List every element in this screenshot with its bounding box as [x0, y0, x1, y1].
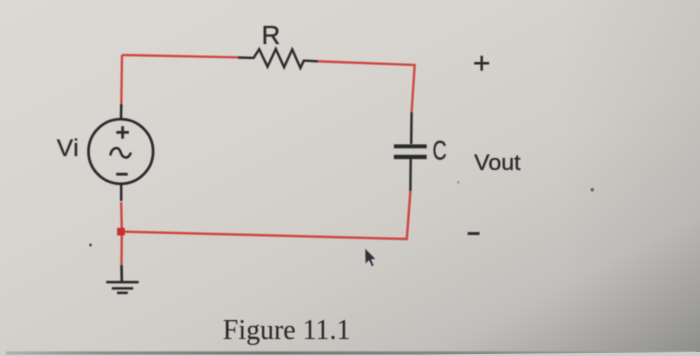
wire black stub below capacitor	[409, 159, 412, 191]
mouse cursor	[365, 248, 377, 268]
dust speck right	[590, 188, 594, 192]
figure caption	[223, 315, 351, 346]
ground symbol	[106, 282, 138, 293]
wire left vertical red	[120, 55, 123, 104]
bottom bezel strip	[6, 351, 696, 354]
svg-text:C: C	[433, 135, 447, 165]
wire black stub into capacitor	[410, 112, 413, 144]
plus sign inside source	[116, 126, 129, 139]
dust speck mid	[457, 181, 460, 184]
resistor R (zigzag)	[238, 49, 318, 68]
dust speck left	[89, 243, 92, 246]
wire red down to junction and ground	[120, 202, 123, 265]
svg-text:Vi: Vi	[57, 135, 80, 162]
voltage source Vi (circle)	[89, 119, 154, 184]
wire bottom right red	[122, 191, 410, 239]
minus sign inside source	[116, 173, 128, 176]
svg-text:Figure 11.1: Figure 11.1	[223, 315, 351, 346]
label + (Vout positive)	[474, 56, 489, 71]
wire black lead into source	[120, 104, 123, 120]
capacitor C: top plate	[394, 144, 427, 148]
wire top left red (node A to resistor)	[122, 55, 238, 57]
wire top right red (resistor to node B)	[318, 61, 415, 112]
bottom light edge	[0, 352, 700, 356]
sine symbol inside source	[111, 148, 131, 157]
svg-text:R: R	[262, 20, 281, 50]
wire black stub below source	[120, 183, 123, 201]
wire black stub to ground	[120, 265, 123, 281]
svg-text:Vout: Vout	[474, 150, 521, 175]
label minus (Vout negative)	[468, 232, 480, 235]
junction node (red square)	[117, 228, 125, 236]
capacitor C: bottom plate	[394, 155, 427, 159]
